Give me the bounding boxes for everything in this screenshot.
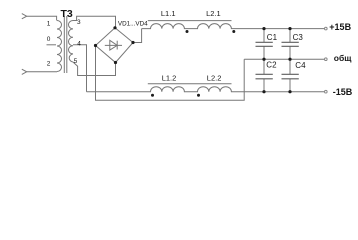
svg-text:VD1...VD4: VD1...VD4 [118,20,148,27]
svg-text:L1.1: L1.1 [161,9,176,18]
svg-text:L1.2: L1.2 [162,74,177,83]
svg-text:C3: C3 [293,33,304,42]
svg-text:C4: C4 [295,61,306,70]
svg-text:4: 4 [77,40,81,47]
svg-text:общ: общ [334,53,352,63]
svg-text:+15В: +15В [329,22,351,32]
svg-text:5: 5 [74,58,78,65]
svg-text:L2.2: L2.2 [207,74,222,83]
svg-text:1: 1 [47,21,51,28]
svg-text:C2: C2 [266,61,277,70]
svg-text:L2.1: L2.1 [206,9,221,18]
svg-text:0: 0 [47,36,51,43]
svg-text:2: 2 [47,61,51,68]
svg-text:T3: T3 [61,8,73,20]
svg-text:3: 3 [77,19,81,26]
svg-text:-15В: -15В [333,87,353,97]
svg-text:C1: C1 [267,33,278,42]
